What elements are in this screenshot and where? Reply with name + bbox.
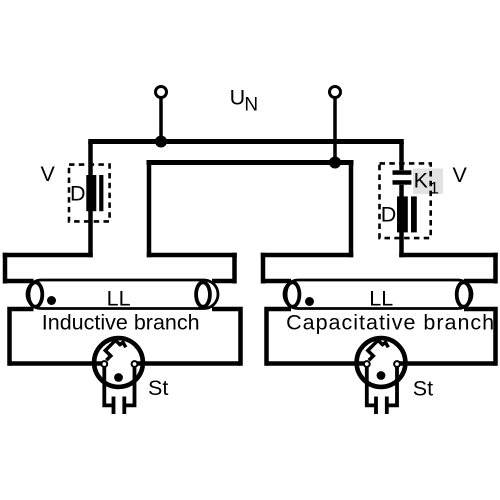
svg-text:N: N bbox=[244, 95, 258, 116]
svg-text:U: U bbox=[230, 85, 246, 109]
svg-text:1: 1 bbox=[430, 179, 439, 198]
svg-text:LL: LL bbox=[107, 287, 131, 311]
svg-text:Inductive branch: Inductive branch bbox=[42, 311, 200, 335]
svg-text:V: V bbox=[453, 163, 468, 187]
svg-text:Capacitative branch: Capacitative branch bbox=[286, 311, 495, 335]
svg-text:K: K bbox=[414, 168, 429, 192]
svg-text:V: V bbox=[41, 162, 56, 186]
svg-text:D: D bbox=[381, 203, 397, 227]
svg-text:LL: LL bbox=[369, 287, 393, 311]
svg-text:St: St bbox=[413, 377, 433, 401]
svg-text:D: D bbox=[70, 182, 86, 206]
svg-text:St: St bbox=[148, 376, 168, 400]
